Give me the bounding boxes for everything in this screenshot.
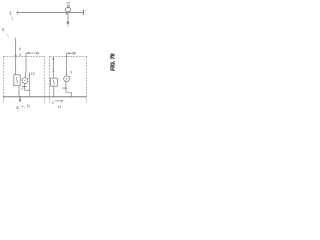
capacitor plate C2 <box>63 87 67 89</box>
wire jog to feedback branch box2 <box>66 91 72 93</box>
node label 12 below arrow <box>58 105 62 109</box>
junction arrowhead below rail <box>66 13 69 15</box>
svg-text:13: 13 <box>31 72 35 76</box>
arrow end of B1 wire <box>66 22 69 26</box>
svg-text:18: 18 <box>66 4 70 8</box>
svg-text:1: 1 <box>9 11 12 16</box>
svg-text:12: 12 <box>58 105 62 109</box>
wire into left box (input) <box>15 38 17 75</box>
wire from tap down to transistor Q2 <box>66 53 68 76</box>
arrow pointing right below rail box2 <box>55 100 62 102</box>
node label 1b (on right box wire) <box>52 68 55 73</box>
wire from tap down to transistor Q1 <box>24 53 27 78</box>
node label tail <box>17 110 19 112</box>
node label 47 (below rail left) <box>16 105 19 110</box>
dashed enclosure box 1 (left) <box>4 56 45 103</box>
svg-text:1: 1 <box>52 68 55 73</box>
svg-text:3: 3 <box>70 70 72 74</box>
arrowhead on input wire at box edge <box>15 55 17 58</box>
svg-text:4: 4 <box>16 105 19 110</box>
arrowhead on tap box1 <box>26 52 29 54</box>
svg-text:FIG. 79: FIG. 79 <box>111 53 117 70</box>
emitter tick Q1 <box>27 78 29 80</box>
svg-text:1): 1) <box>27 104 31 108</box>
wire Q2 emitter down <box>65 82 67 88</box>
output tap arrow line box2 <box>67 52 73 54</box>
svg-text:1: 1 <box>52 100 54 104</box>
label arrow below X1 <box>21 88 23 90</box>
wire X1 bottom to ground rail <box>18 86 20 97</box>
rail end terminal bar <box>82 10 84 16</box>
output tap arrow line box1 <box>26 52 36 54</box>
current source B1 (ellipse above rail) <box>65 8 71 12</box>
node label 1c (below rail right box) <box>52 100 54 104</box>
svg-text:7: 7 <box>84 10 86 14</box>
label right of terminal <box>84 10 86 14</box>
wire from B1 down <box>67 14 69 22</box>
leader from label 2 <box>7 34 10 37</box>
node label 2) below rail left <box>27 104 31 108</box>
junction dot box2 rail <box>53 96 54 97</box>
wire X2 bottom to rail <box>53 86 55 97</box>
dashed enclosure box 2 (right) <box>50 56 87 103</box>
symbol inside X1 <box>16 77 17 83</box>
ground rail <box>3 96 87 98</box>
leader from label 1 <box>12 16 13 20</box>
open terminal dot box1 <box>36 52 38 54</box>
svg-text:2: 2 <box>2 27 5 32</box>
svg-text:+,: +, <box>22 104 25 108</box>
transistor Q2 (circle in box2) <box>64 76 70 82</box>
node label (+) below rail left <box>22 104 25 108</box>
wire top supply rail <box>16 11 19 14</box>
symbol inside X2 <box>53 80 54 85</box>
node label 1 (top-left numeral) <box>9 11 12 16</box>
node label 3 (above right of Q2) <box>70 70 72 74</box>
open terminal dot box2 <box>73 52 75 54</box>
node label 2 (left side numeral) <box>2 27 5 32</box>
arrowhead on right box input <box>52 58 54 61</box>
value labels above B1 <box>66 2 70 9</box>
resonator X2 (rect in box2) <box>50 78 57 86</box>
resonator X1 (rect in box1) <box>14 75 20 86</box>
transistor Q1 (circle in box1) <box>22 78 28 84</box>
capacitor plate C1 <box>22 85 27 87</box>
node label 13 (above right of Q1) <box>31 72 35 76</box>
emitter tick Q2 <box>69 76 71 78</box>
wire into right box top <box>52 57 54 78</box>
svg-text:4: 4 <box>19 47 22 51</box>
arrowhead on tap box2 <box>67 52 70 54</box>
node label 4 (beside input wire) <box>19 47 22 57</box>
ground arrow below rail box1 <box>19 97 21 100</box>
junction dot box1 rail <box>19 96 21 98</box>
feedback wire box2 <box>70 92 72 97</box>
wire jog to feedback branch box1 <box>24 89 29 91</box>
figure caption FIG. 79 (rotated) <box>111 53 117 70</box>
feedback wire box1 <box>29 72 31 97</box>
wire Q1 emitter down <box>23 83 25 86</box>
